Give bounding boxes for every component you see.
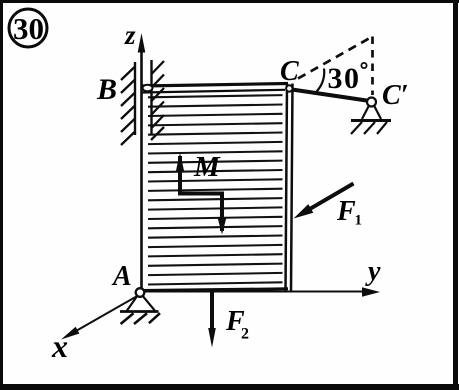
support C' base [351, 119, 391, 122]
couple M arrows [176, 153, 227, 235]
svg-text:F: F [336, 196, 356, 227]
problem number badge 30 [9, 9, 47, 47]
svg-text:y: y [365, 256, 381, 287]
plate hatch fill [148, 95, 283, 284]
angle arc [317, 69, 325, 92]
dashed construction line from C [298, 37, 373, 79]
pin B [143, 85, 153, 92]
svg-text:1: 1 [355, 213, 363, 229]
y axis [140, 287, 380, 296]
plate right edge (double line) [286, 84, 293, 292]
force F2 arrow [208, 291, 216, 348]
wall at B [121, 62, 135, 145]
z axis [138, 33, 146, 293]
x axis [61, 295, 139, 340]
support C' triangle [362, 106, 381, 120]
svg-text:C′: C′ [382, 80, 409, 111]
svg-text:A: A [111, 261, 132, 292]
svg-text:z: z [124, 20, 136, 50]
support C' pin circle [367, 98, 376, 107]
plate bottom edge [141, 289, 288, 291]
svg-text:30: 30 [13, 11, 44, 46]
dashed vertical construction line [371, 37, 374, 96]
plate top edge [142, 84, 288, 93]
frame [0, 0, 459, 3]
svg-text:C: C [280, 56, 299, 87]
support C' hatching [351, 122, 387, 134]
support A triangle [127, 296, 155, 311]
support A hatching [121, 313, 160, 324]
support A base [120, 310, 159, 313]
svg-text:B: B [96, 73, 117, 106]
svg-text:M: M [193, 151, 221, 183]
svg-text:30: 30 [328, 62, 361, 95]
pin C [286, 85, 292, 91]
support A pin circle [136, 288, 145, 297]
hinge edge at B [151, 60, 164, 140]
rod C to C' [292, 90, 370, 102]
svg-text:x: x [51, 328, 68, 364]
svg-text:2: 2 [241, 326, 249, 343]
force F1 arrow [294, 184, 354, 219]
